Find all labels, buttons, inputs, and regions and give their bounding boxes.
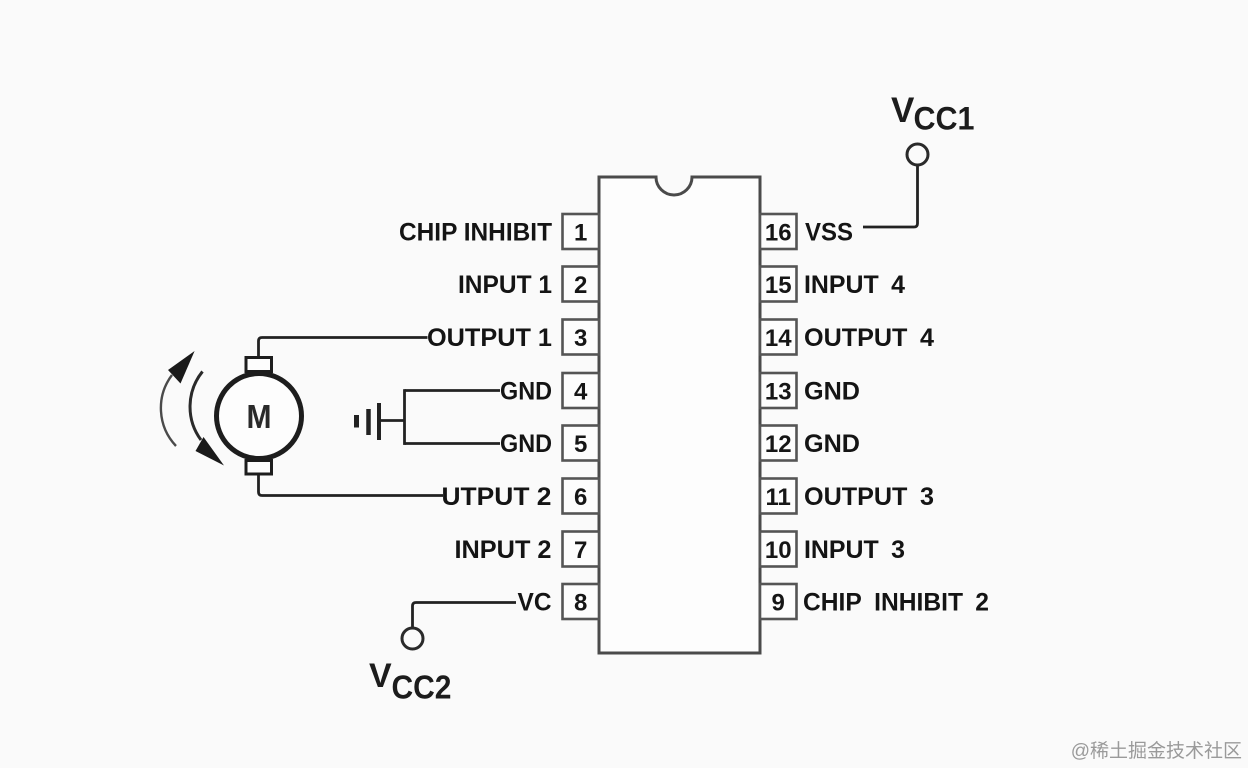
Vcc1 terminal circle (907, 144, 928, 165)
pin 4 (563, 373, 600, 408)
rotation arrow arc outer (ccw) (161, 375, 176, 446)
svg-text:OUTPUT 1: OUTPUT 1 (427, 324, 552, 352)
svg-text:CC1: CC1 (914, 101, 975, 137)
svg-text:V: V (891, 91, 915, 130)
svg-text:INPUT 1: INPUT 1 (458, 271, 552, 299)
motor M circle (217, 374, 302, 459)
svg-text:INPUT 3: INPUT 3 (804, 536, 905, 564)
pin 7 (563, 532, 600, 567)
svg-text:UTPUT 2: UTPUT 2 (442, 483, 552, 511)
pin 14 (760, 320, 797, 355)
svg-text:10: 10 (765, 537, 792, 564)
svg-text:4: 4 (574, 379, 588, 406)
svg-text:GND: GND (500, 430, 552, 458)
wire GND pin4 (405, 389, 501, 392)
rotation arrow arc inner (cw) (190, 372, 202, 441)
svg-text:7: 7 (574, 537, 587, 564)
pin 15 (760, 267, 797, 302)
svg-text:OUTPUT 3: OUTPUT 3 (804, 483, 934, 511)
svg-text:VSS: VSS (805, 219, 853, 247)
label VCC1 (891, 91, 975, 137)
svg-text:8: 8 (574, 590, 587, 617)
pin 1 (563, 214, 600, 249)
svg-text:GND: GND (500, 378, 552, 406)
svg-text:CC2: CC2 (392, 669, 452, 706)
wire motor to UTPUT 2 (259, 472, 444, 496)
svg-text:11: 11 (766, 484, 791, 511)
svg-text:1: 1 (574, 220, 587, 247)
wire motor to OUTPUT 1 (259, 338, 428, 358)
svg-text:13: 13 (765, 379, 792, 406)
pin 6 (563, 479, 600, 514)
pin 5 (563, 426, 600, 461)
wire VSS to Vcc1 (863, 166, 918, 228)
ground symbol bar middle (366, 409, 371, 435)
pin 9 (760, 584, 797, 619)
svg-text:9: 9 (772, 590, 785, 617)
Vcc2 terminal circle (402, 628, 423, 649)
pin 2 (563, 267, 600, 302)
pin 13 (760, 373, 797, 408)
pin 12 (760, 426, 797, 461)
svg-text:V: V (369, 657, 392, 695)
svg-text:16: 16 (765, 220, 792, 247)
rotation arrowhead bottom (cw) (196, 437, 225, 466)
wire ground stem (379, 419, 405, 422)
svg-text:15: 15 (765, 272, 792, 299)
ground symbol bar short (354, 415, 359, 428)
rotation arrowhead top (ccw) (168, 351, 195, 384)
pin 3 (563, 320, 600, 355)
label VCC2 (369, 657, 452, 706)
wire GND bracket vertical (403, 389, 406, 445)
svg-text:2: 2 (574, 272, 587, 299)
wire VC to Vcc2 (413, 603, 517, 628)
IC U1 body with pin-1 notch (599, 177, 760, 653)
svg-text:@稀土掘金技术社区: @稀土掘金技术社区 (1071, 740, 1242, 762)
svg-text:M: M (247, 398, 272, 435)
svg-text:3: 3 (574, 325, 587, 352)
svg-text:GND: GND (804, 378, 860, 406)
motor M terminal bottom (246, 461, 272, 475)
pin 16 (760, 214, 797, 249)
pin 10 (760, 532, 797, 567)
pin 11 (760, 479, 797, 514)
ground symbol bar long (377, 403, 381, 440)
svg-text:12: 12 (765, 431, 792, 458)
svg-text:GND: GND (804, 430, 860, 458)
svg-text:INPUT 4: INPUT 4 (804, 271, 905, 299)
pin 8 (563, 584, 600, 619)
svg-text:5: 5 (574, 431, 587, 458)
wire GND pin5 (405, 442, 501, 445)
svg-text:VC: VC (518, 589, 552, 617)
motor M terminal top (246, 358, 272, 372)
svg-text:6: 6 (574, 484, 587, 511)
svg-text:CHIP INHIBIT 2: CHIP INHIBIT 2 (803, 589, 989, 617)
svg-text:CHIP INHIBIT: CHIP INHIBIT (399, 219, 552, 247)
svg-text:14: 14 (765, 325, 792, 352)
svg-text:INPUT 2: INPUT 2 (455, 536, 552, 564)
svg-text:OUTPUT 4: OUTPUT 4 (804, 324, 934, 352)
